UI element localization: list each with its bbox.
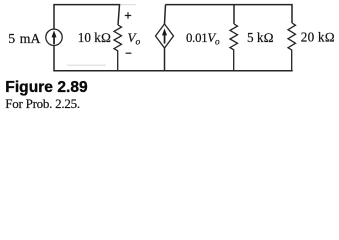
svg-text:Vo: Vo bbox=[128, 30, 141, 48]
svg-text:Figure 2.89: Figure 2.89 bbox=[5, 79, 88, 96]
svg-text:5 mA: 5 mA bbox=[8, 31, 40, 46]
svg-text:0.01Vo: 0.01Vo bbox=[186, 31, 220, 48]
svg-text:5 kΩ: 5 kΩ bbox=[247, 30, 274, 45]
svg-text:For Prob. 2.25.: For Prob. 2.25. bbox=[5, 96, 80, 111]
svg-text:10 kΩ: 10 kΩ bbox=[78, 30, 111, 45]
svg-text:20 kΩ: 20 kΩ bbox=[301, 29, 335, 44]
